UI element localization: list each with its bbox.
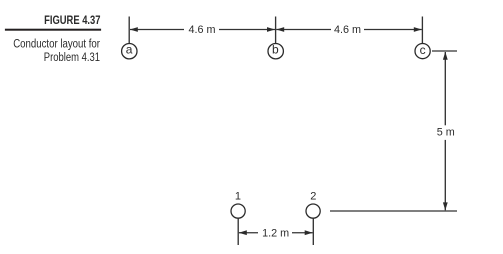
svg-text:Conductor layout for: Conductor layout for	[13, 37, 100, 51]
dimension b-c wire left segment	[276, 29, 331, 31]
tick above conductor c	[421, 17, 423, 44]
dimension 1-2 wire left segment	[239, 232, 258, 234]
tick below conductor 2	[312, 219, 314, 246]
svg-text:FIGURE 4.37: FIGURE 4.37	[44, 13, 101, 27]
svg-text:4.6 m: 4.6 m	[334, 24, 361, 36]
vertical dimension down arrowhead	[443, 202, 448, 210]
dimension a-b right arrowhead	[267, 27, 275, 32]
svg-text:4.6 m: 4.6 m	[188, 24, 215, 36]
tick above conductor a	[128, 17, 130, 44]
conductor b	[268, 44, 283, 59]
conductor 2	[306, 204, 320, 218]
wire from conductor 2 to vertical dimension	[330, 210, 457, 212]
svg-text:a: a	[126, 43, 133, 57]
svg-text:5 m: 5 m	[437, 127, 455, 139]
conductor a	[122, 44, 137, 59]
tick above conductor b	[275, 17, 277, 44]
dimension b-c right arrowhead	[414, 27, 422, 32]
svg-text:2: 2	[310, 190, 316, 202]
caption rule	[5, 29, 101, 31]
dimension a-b left arrowhead	[130, 27, 138, 32]
vertical dimension up arrowhead	[443, 52, 448, 60]
svg-text:Problem 4.31: Problem 4.31	[44, 50, 100, 64]
dimension b-c left arrowhead	[276, 27, 284, 32]
tick below conductor 1	[237, 219, 239, 246]
wire from conductor c to vertical dimension	[432, 50, 457, 52]
svg-text:1.2 m: 1.2 m	[262, 227, 289, 239]
svg-text:c: c	[420, 43, 426, 57]
vertical dimension 5 m lower segment	[444, 140, 446, 210]
dimension 1-2 wire right segment	[292, 232, 313, 234]
dimension 1-2 left arrowhead	[239, 230, 247, 235]
conductor 1	[231, 204, 245, 218]
svg-text:b: b	[272, 43, 279, 57]
dimension a-b wire left segment	[130, 29, 184, 31]
svg-text:1: 1	[235, 190, 241, 202]
dimension 1-2 right arrowhead	[305, 230, 313, 235]
dimension a-b wire right segment	[219, 29, 275, 31]
dimension b-c wire right segment	[364, 29, 422, 31]
vertical dimension 5 m upper segment	[444, 52, 446, 125]
conductor c	[415, 44, 430, 59]
